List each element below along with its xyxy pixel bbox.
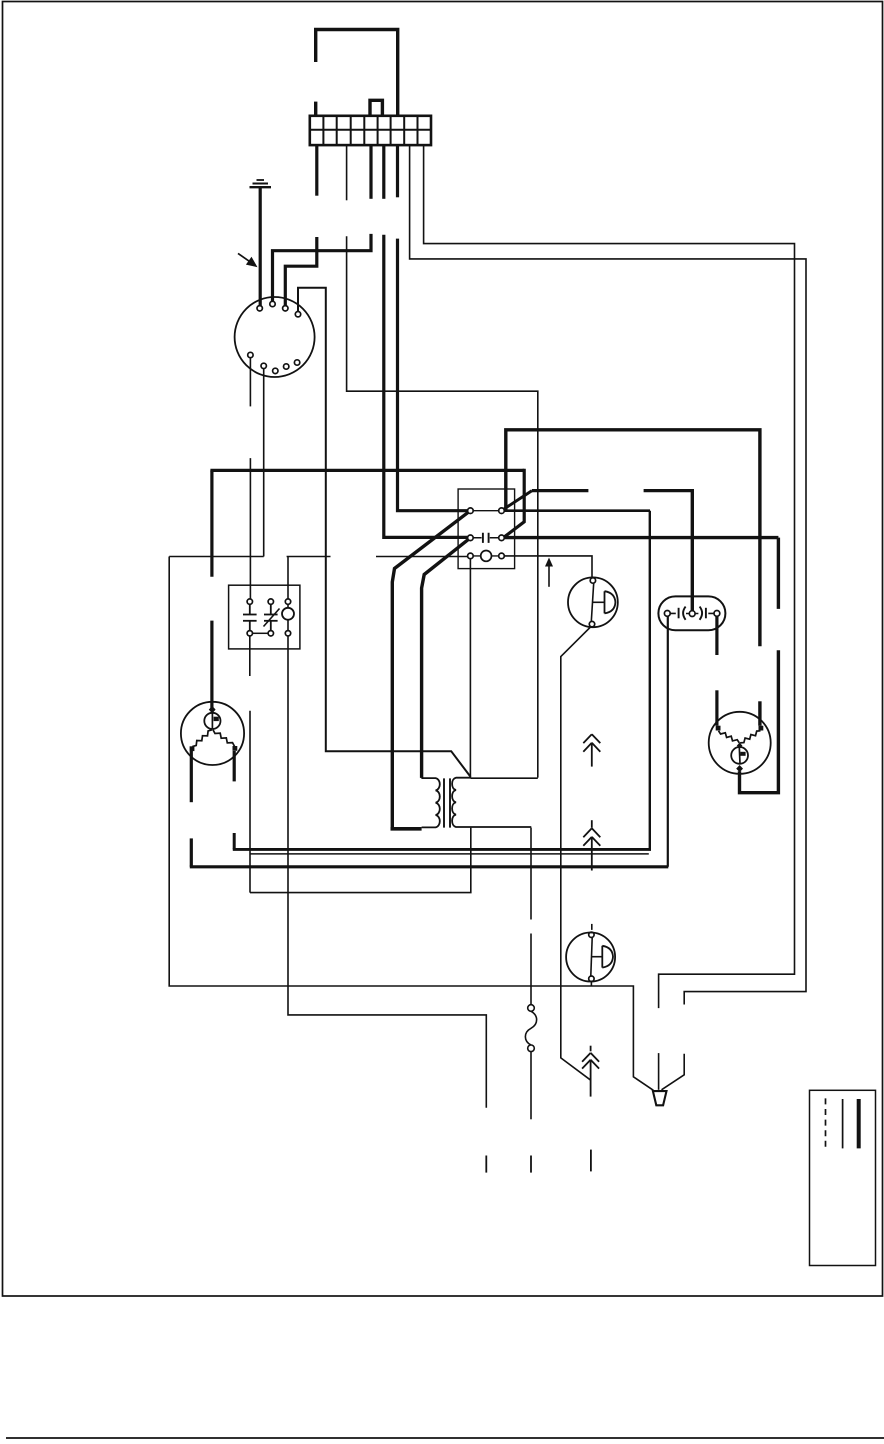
- up arrow marker: [548, 564, 550, 587]
- wire top-left stub: [314, 102, 317, 116]
- magneto M1: [181, 702, 244, 765]
- wire D connector to relay row2 left: [382, 145, 385, 199]
- wire C connector to distributor pin2: [369, 145, 372, 199]
- wire A connector to distributor pin3: [315, 145, 318, 196]
- capacitor C1 in regulator: [243, 604, 257, 630]
- legend dashed sample: [825, 1098, 827, 1148]
- stub end below S3: [590, 1150, 592, 1172]
- wire G connector right loop to funnel middle: [424, 145, 795, 1008]
- harness marker S2: [583, 820, 600, 870]
- distributor bottom pins: [248, 352, 253, 357]
- oval condenser pack: [658, 596, 725, 630]
- arrow pointer: [238, 253, 258, 267]
- lamp in regulator: [282, 608, 294, 620]
- wire regulator top3 to node line: [287, 557, 289, 599]
- wire pin1 down to regulator (dashed): [249, 358, 251, 407]
- regulator bottom terminals: [247, 631, 252, 636]
- connector J1 block: [310, 116, 431, 145]
- wire coil bottom-left thick: [391, 827, 422, 831]
- wire relay row3 right to horn H1: [504, 556, 592, 578]
- legend thin sample: [842, 1099, 844, 1148]
- bus2: [190, 865, 669, 868]
- wire y470 riser to relay row2 right: [504, 469, 524, 537]
- stub end B3: [485, 1156, 487, 1173]
- wire oval right terminal down to generator left terminal (dashed): [715, 616, 718, 655]
- regulator top terminals: [247, 599, 252, 604]
- harness marker S1: [583, 734, 600, 766]
- horn H2 lower: [566, 933, 615, 982]
- variable capacitor C2 in regulator: [264, 604, 280, 630]
- bus thin mid line: [251, 853, 649, 855]
- harness marker S3: [582, 1046, 599, 1097]
- wire U-notch above connector: [370, 100, 382, 116]
- wire relay row2 diagonal to coil primary top: [422, 540, 469, 778]
- wire E connector to relay row1 left: [396, 145, 399, 197]
- funnel terminal: [653, 1091, 667, 1105]
- relay row3 contacts and lamp: [468, 553, 474, 559]
- wire relay row3 left down to coil junction: [469, 559, 471, 779]
- wire magneto left terminal to bus2 (dashed): [190, 751, 193, 802]
- footer rule: [6, 1437, 884, 1439]
- wire top feed rail: [316, 30, 398, 116]
- coil primary winding (left): [421, 778, 439, 827]
- legend thick sample: [857, 1099, 861, 1148]
- ignition coil T1 core: [444, 778, 450, 827]
- relay contacts row1: [468, 508, 474, 514]
- relay row2 contacts and capacitor: [468, 535, 474, 541]
- wire coil top junction link: [471, 777, 538, 779]
- wire relay row1 right up-over to generator right terminal: [506, 430, 760, 646]
- wire left big loop to funnel left: [169, 557, 653, 1091]
- wire relay row2 right to right side drop: [504, 536, 778, 539]
- wire coil bottom to fuse (dashed): [530, 828, 532, 920]
- regulator box: [229, 585, 300, 649]
- bus2 riser to oval left terminal: [667, 616, 669, 867]
- coil secondary winding (right): [452, 778, 531, 827]
- wire B connector to ignition coil (thin): [346, 145, 348, 200]
- bus1: [233, 848, 651, 851]
- wire relay row1 right to bus1 riser: [504, 509, 650, 512]
- wire magneto feed (dashed): [210, 470, 213, 576]
- relay K1 box: [458, 489, 514, 569]
- distributor: [235, 297, 315, 377]
- link bottom terminals 1-2: [253, 632, 269, 634]
- horn H1 upper: [568, 577, 618, 627]
- generator G1: [709, 712, 771, 774]
- wire relay row1 diagonal to coil primary bottom: [392, 512, 468, 827]
- wire regulator bottom3 long run to bottom stub: [288, 636, 486, 1108]
- legend box: [810, 1090, 876, 1265]
- wire pin2 down to node line: [263, 369, 265, 557]
- wire pin4 loop to coil primary right: [298, 288, 471, 777]
- fuse F1: [528, 1005, 535, 1012]
- node line y556 dashed: [169, 556, 264, 558]
- wire relay row1 diagonal to dashed feeder: [504, 491, 532, 510]
- wire horn H1 down-left long drop: [561, 627, 591, 1081]
- bus1 riser to relay row1: [649, 511, 651, 851]
- wire feeder down to oval middle: [691, 489, 694, 611]
- wire coil secondary return loop: [250, 828, 471, 893]
- wire magneto right terminal to bus1 (dashed): [233, 751, 236, 781]
- ground symbol: [250, 180, 272, 306]
- wire feed horizontal y470: [210, 469, 524, 472]
- wire F connector right loop to funnel right: [410, 145, 806, 1005]
- wire regulator bottom1 down (dashed): [249, 636, 251, 676]
- distributor top pins: [257, 306, 262, 311]
